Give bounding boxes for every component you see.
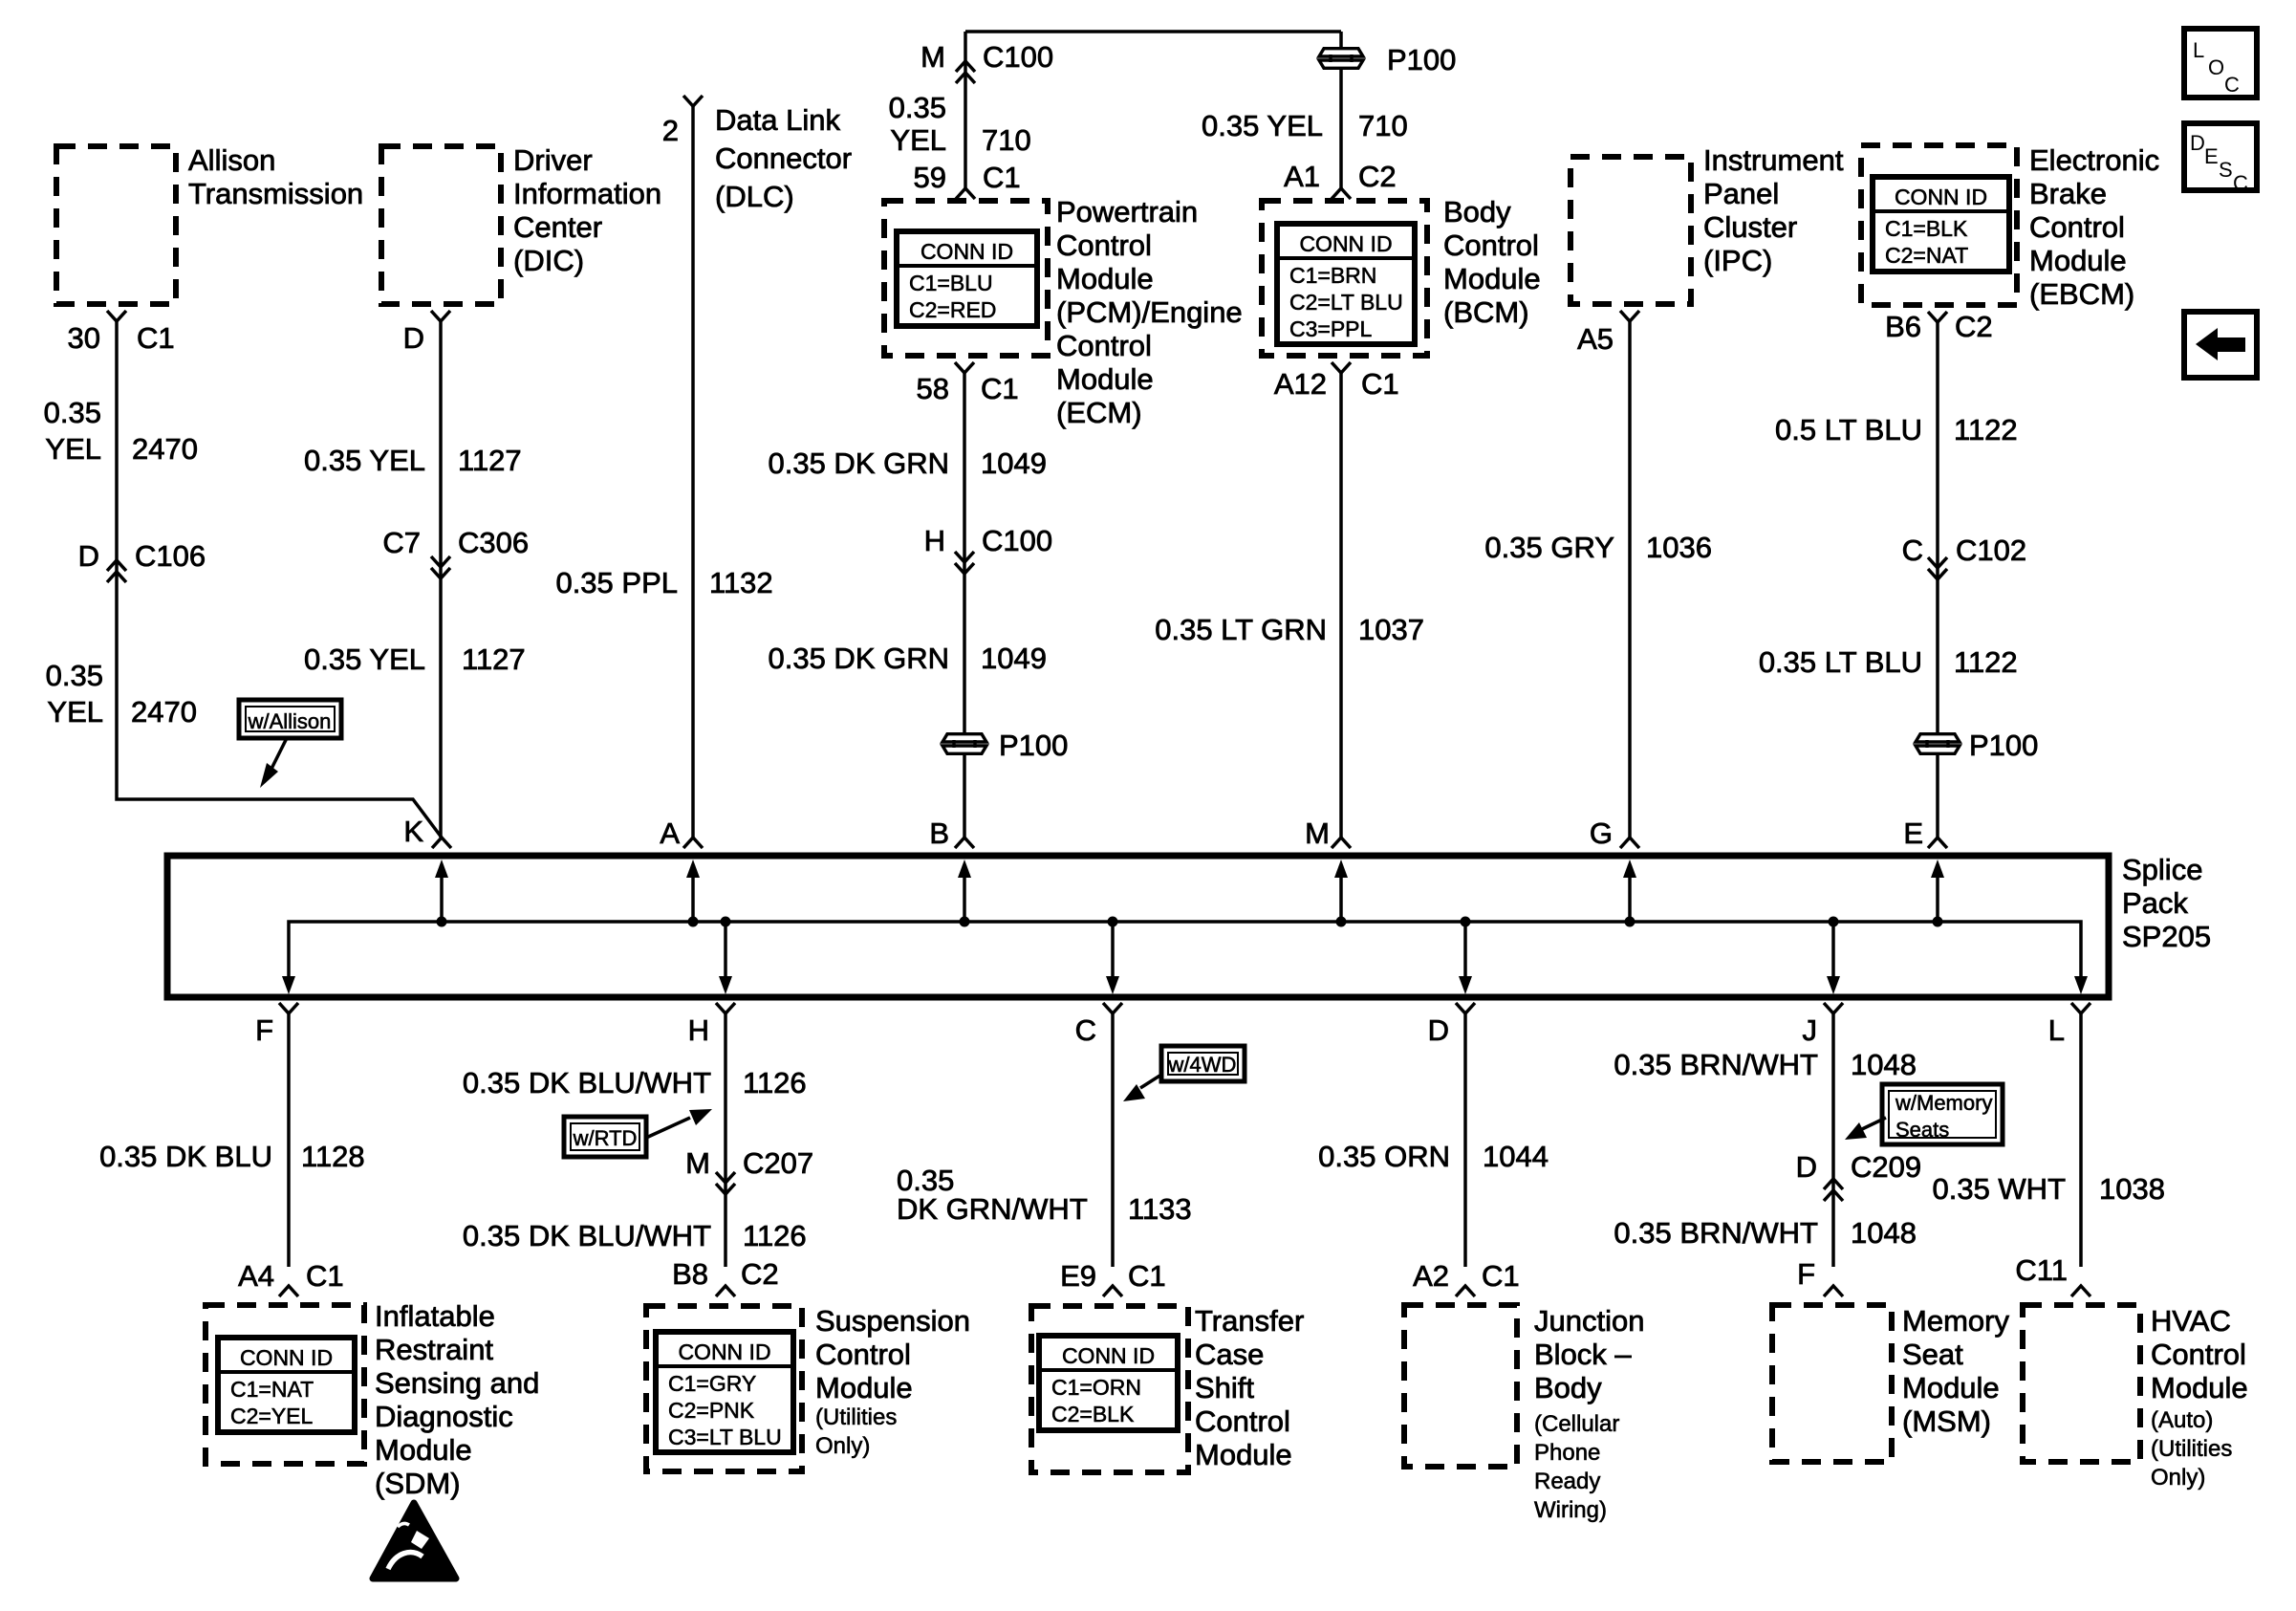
svg-text:Brake: Brake xyxy=(2029,177,2107,210)
svg-text:G: G xyxy=(1590,816,1613,850)
svg-text:Splice: Splice xyxy=(2122,853,2202,886)
connector chevron junction pin A2 xyxy=(1456,1286,1475,1296)
svg-text:C102: C102 xyxy=(1956,533,2026,567)
svg-text:M: M xyxy=(685,1146,710,1180)
svg-text:1044: 1044 xyxy=(1483,1140,1549,1173)
svg-text:C1=GRY: C1=GRY xyxy=(668,1371,756,1396)
label 0.35 LT BLU 1122 (lower) xyxy=(1759,645,2018,679)
svg-text:H: H xyxy=(924,524,945,557)
svg-text:C106: C106 xyxy=(135,539,206,573)
svg-text:C2=YEL: C2=YEL xyxy=(230,1404,314,1428)
module box: BCM xyxy=(1262,201,1427,356)
svg-text:M: M xyxy=(921,40,945,74)
label 0.35 LT GRN 1037 xyxy=(1155,613,1424,646)
svg-text:A5: A5 xyxy=(1577,322,1614,356)
airbag warning triangle xyxy=(373,1503,456,1578)
wire: HVAC 1038 WHT xyxy=(2079,1013,2083,1267)
label 0.35 DK GRN 1049 (upper) xyxy=(768,446,1046,480)
svg-text:Control: Control xyxy=(1056,329,1152,362)
svg-text:710: 710 xyxy=(982,123,1031,157)
svg-text:D: D xyxy=(78,539,99,573)
label Junction Block Body (Cellular Phone Ready Wiring) xyxy=(1534,1304,1644,1523)
svg-text:0.35 LT BLU: 0.35 LT BLU xyxy=(1759,645,1922,679)
svg-text:B: B xyxy=(929,816,949,850)
splice bus wire xyxy=(289,922,2081,976)
svg-text:0.35 WHT: 0.35 WHT xyxy=(1932,1172,2066,1206)
svg-text:C2=BLK: C2=BLK xyxy=(1051,1402,1135,1426)
svg-text:C207: C207 xyxy=(743,1146,813,1180)
splice up arrow G xyxy=(1623,860,1636,927)
svg-text:(PCM)/Engine: (PCM)/Engine xyxy=(1056,295,1243,329)
svg-text:C: C xyxy=(2224,73,2240,97)
svg-text:Shift: Shift xyxy=(1195,1371,1254,1404)
svg-text:O: O xyxy=(2208,55,2224,79)
svg-text:Connector: Connector xyxy=(715,142,852,175)
module box: PCM/ECM xyxy=(884,201,1048,356)
label 0.35 YEL 710 (left) xyxy=(889,91,1031,157)
CONN ID table SDM xyxy=(218,1338,355,1432)
svg-text:YEL: YEL xyxy=(890,123,946,157)
svg-text:0.5 LT BLU: 0.5 LT BLU xyxy=(1775,413,1922,446)
connector chevron HVAC pin C11 xyxy=(2071,1286,2090,1296)
svg-text:Control: Control xyxy=(2029,210,2125,244)
svg-text:H: H xyxy=(688,1013,709,1047)
svg-text:(DIC): (DIC) xyxy=(513,244,584,277)
svg-text:(Utilities: (Utilities xyxy=(815,1404,897,1430)
svg-text:Body: Body xyxy=(1534,1371,1602,1404)
svg-text:C: C xyxy=(2233,171,2248,195)
connector chevron MSM pin F xyxy=(1824,1286,1843,1296)
svg-text:Phone: Phone xyxy=(1534,1440,1600,1466)
connector C106 double chevron xyxy=(107,560,126,571)
callout w/Allison xyxy=(239,700,341,738)
connector chevron splice out D xyxy=(1456,1003,1475,1013)
svg-text:Pack: Pack xyxy=(2122,886,2188,920)
svg-text:C1: C1 xyxy=(981,372,1019,405)
splice down arrow L (right end) xyxy=(2074,976,2088,994)
svg-text:C7: C7 xyxy=(382,526,421,559)
svg-text:CONN ID: CONN ID xyxy=(240,1345,333,1370)
splice up arrow E xyxy=(1931,860,1944,927)
label C7 C306 xyxy=(382,526,529,559)
svg-text:1038: 1038 xyxy=(2099,1172,2165,1206)
svg-text:Only): Only) xyxy=(815,1433,870,1459)
svg-text:Inflatable: Inflatable xyxy=(375,1299,495,1333)
svg-text:Body: Body xyxy=(1443,195,1511,229)
svg-text:1049: 1049 xyxy=(981,446,1047,480)
module box: IPC xyxy=(1570,157,1691,304)
svg-text:w/4WD: w/4WD xyxy=(1168,1053,1237,1077)
DESC reference box xyxy=(2184,123,2257,195)
svg-text:0.35 DK GRN: 0.35 DK GRN xyxy=(768,446,949,480)
label 0.35 YEL 2470 (lower) xyxy=(46,659,197,729)
svg-text:DK GRN/WHT: DK GRN/WHT xyxy=(897,1192,1088,1226)
svg-text:2470: 2470 xyxy=(131,695,197,729)
connector chevron splice G xyxy=(1620,838,1639,848)
callout arrow w/Allison xyxy=(271,738,287,769)
svg-text:A1: A1 xyxy=(1284,160,1320,193)
wire: IPC 1036 GRY xyxy=(1628,321,1632,838)
svg-text:w/RTD: w/RTD xyxy=(573,1126,638,1150)
module box: EBCM xyxy=(1861,145,2017,305)
connector chevron splice B xyxy=(955,838,974,848)
splice up arrow A xyxy=(686,860,700,927)
connector chevron splice K xyxy=(432,838,451,848)
connector chevron suspension pin B8 xyxy=(716,1286,735,1296)
svg-text:C2: C2 xyxy=(741,1257,779,1291)
svg-text:Suspension: Suspension xyxy=(815,1304,970,1338)
svg-text:0.35 PPL: 0.35 PPL xyxy=(555,566,678,599)
svg-text:L: L xyxy=(2048,1013,2065,1047)
wire: PCM 1049 DK GRN xyxy=(963,373,966,838)
connector C100 (H) double chevron xyxy=(955,552,974,562)
svg-text:E9: E9 xyxy=(1060,1259,1096,1293)
svg-text:Case: Case xyxy=(1195,1338,1264,1371)
svg-text:0.35 DK BLU/WHT: 0.35 DK BLU/WHT xyxy=(463,1066,711,1099)
svg-text:S: S xyxy=(2219,158,2233,182)
splice down arrow H xyxy=(719,917,732,995)
label Electronic Brake Control Module (EBCM) xyxy=(2029,143,2159,311)
svg-text:(ECM): (ECM) xyxy=(1056,396,1142,429)
label 0.35 DK GRN 1049 (lower) xyxy=(768,642,1046,675)
module box: Junction Block - Body xyxy=(1404,1305,1517,1467)
back-arrow reference box xyxy=(2184,312,2257,378)
CONN ID table transfer case xyxy=(1039,1336,1178,1430)
label D C209 xyxy=(1796,1150,1922,1184)
wire: PCM 59 to C100 M vertical xyxy=(964,32,967,189)
svg-text:Transmission: Transmission xyxy=(188,177,363,210)
svg-text:E: E xyxy=(2204,144,2219,168)
svg-text:E: E xyxy=(1903,816,1923,850)
svg-text:Ready: Ready xyxy=(1534,1469,1600,1494)
wire: junction block 1044 ORN xyxy=(1463,1013,1467,1267)
svg-text:1128: 1128 xyxy=(301,1140,365,1173)
label Splice Pack SP205 xyxy=(2122,853,2211,953)
svg-text:C2: C2 xyxy=(1955,310,1993,343)
svg-text:A2: A2 xyxy=(1413,1259,1449,1293)
svg-text:CONN ID: CONN ID xyxy=(1299,231,1392,256)
svg-text:C306: C306 xyxy=(458,526,529,559)
label M C207 xyxy=(685,1146,813,1180)
svg-text:1133: 1133 xyxy=(1128,1192,1192,1226)
connector C209 double chevron xyxy=(1824,1179,1843,1189)
svg-text:2: 2 xyxy=(662,114,679,147)
svg-text:59: 59 xyxy=(914,161,946,194)
svg-text:710: 710 xyxy=(1358,109,1408,142)
LOC reference box xyxy=(2184,29,2257,98)
svg-text:1036: 1036 xyxy=(1646,531,1712,564)
svg-text:Only): Only) xyxy=(2151,1465,2205,1491)
svg-text:L: L xyxy=(2193,38,2204,62)
svg-text:Transfer: Transfer xyxy=(1195,1304,1304,1338)
svg-text:P100: P100 xyxy=(1969,729,2038,762)
svg-text:Restraint: Restraint xyxy=(375,1333,493,1366)
svg-text:C: C xyxy=(1075,1013,1096,1047)
connector chevron into BCM pin A1 xyxy=(1332,188,1351,199)
svg-text:0.35: 0.35 xyxy=(889,91,946,124)
wire: BCM A1 branch vertical xyxy=(1339,32,1343,189)
svg-text:C1=BLU: C1=BLU xyxy=(909,271,993,295)
svg-text:1048: 1048 xyxy=(1851,1048,1917,1081)
svg-text:C1: C1 xyxy=(1482,1259,1520,1293)
label B8 C2 xyxy=(672,1257,779,1291)
svg-text:M: M xyxy=(1305,816,1330,850)
svg-text:Sensing and: Sensing and xyxy=(375,1366,539,1400)
callout arrow w/RTD xyxy=(646,1118,690,1138)
svg-text:D: D xyxy=(2190,131,2205,155)
label M C100 xyxy=(921,40,1053,74)
svg-text:C100: C100 xyxy=(982,524,1052,557)
svg-text:Control: Control xyxy=(1056,229,1152,262)
module box: Driver Information Center xyxy=(381,146,501,304)
svg-text:1132: 1132 xyxy=(709,566,773,599)
svg-text:K: K xyxy=(403,815,423,848)
svg-text:0.35 DK GRN: 0.35 DK GRN xyxy=(768,642,949,675)
svg-text:CONN ID: CONN ID xyxy=(921,239,1013,264)
connector chevron transfer pin E9 xyxy=(1103,1286,1122,1296)
label 0.35 YEL 710 (right) xyxy=(1202,109,1408,142)
svg-text:(Auto): (Auto) xyxy=(2151,1407,2213,1433)
svg-text:Diagnostic: Diagnostic xyxy=(375,1400,513,1433)
label A2 C1 xyxy=(1413,1259,1520,1293)
label 0.35 YEL 2470 (upper) xyxy=(44,396,198,466)
connector chevron SDM pin A4 xyxy=(279,1286,298,1296)
label 0.35 YEL 1127 (lower) xyxy=(304,642,526,676)
svg-text:F: F xyxy=(1797,1257,1815,1291)
svg-text:0.35 DK BLU/WHT: 0.35 DK BLU/WHT xyxy=(463,1219,711,1252)
svg-text:C11: C11 xyxy=(2015,1253,2068,1287)
label B6 C2 xyxy=(1885,310,1993,343)
svg-text:Control: Control xyxy=(2151,1338,2246,1371)
svg-text:Module: Module xyxy=(1902,1371,2000,1404)
connector chevron splice M xyxy=(1332,838,1351,848)
svg-text:C2=RED: C2=RED xyxy=(909,297,996,322)
svg-text:D: D xyxy=(1428,1013,1449,1047)
svg-text:w/Allison: w/Allison xyxy=(248,709,332,733)
svg-text:(SDM): (SDM) xyxy=(375,1467,461,1500)
splice down arrow C xyxy=(1106,917,1119,995)
svg-text:1122: 1122 xyxy=(1954,645,2018,679)
label C C102 xyxy=(1902,533,2027,567)
wire: DIC 1127 YEL xyxy=(439,321,443,838)
svg-text:B8: B8 xyxy=(672,1257,708,1291)
label D C106 xyxy=(78,539,206,573)
wire: EBCM 1122 LT BLU xyxy=(1936,322,1939,838)
svg-text:1126: 1126 xyxy=(743,1219,807,1252)
label 0.35 YEL 1127 (upper) xyxy=(304,444,522,477)
wire: SDM 1128 DK BLU xyxy=(287,1013,291,1267)
label 0.5 LT BLU 1122 (upper) xyxy=(1775,413,2018,446)
svg-text:A: A xyxy=(660,816,680,850)
callout w/RTD xyxy=(564,1117,646,1157)
svg-text:D: D xyxy=(1796,1150,1817,1184)
svg-text:Control: Control xyxy=(1195,1404,1290,1438)
CONN ID table EBCM xyxy=(1873,177,2009,272)
svg-text:C1=BLK: C1=BLK xyxy=(1885,216,1968,241)
label 0.35 DK BLU 1128 xyxy=(99,1140,365,1173)
svg-text:C2=LT BLU: C2=LT BLU xyxy=(1289,290,1403,315)
svg-text:0.35 BRN/WHT: 0.35 BRN/WHT xyxy=(1614,1048,1818,1081)
splice up arrow K xyxy=(435,860,448,927)
svg-text:30: 30 xyxy=(68,321,100,355)
svg-text:2470: 2470 xyxy=(132,432,198,466)
label 30 C1 xyxy=(68,321,175,355)
label Instrument Panel Cluster (IPC) xyxy=(1703,143,1844,277)
wire: transfer case 1133 DK GRN/WHT xyxy=(1111,1013,1115,1267)
label 0.35 BRN/WHT 1048 (upper) xyxy=(1614,1048,1917,1081)
svg-text:1127: 1127 xyxy=(458,444,522,477)
svg-text:J: J xyxy=(1803,1013,1818,1047)
svg-text:1037: 1037 xyxy=(1358,613,1424,646)
svg-text:Data Link: Data Link xyxy=(715,103,840,137)
svg-text:w/Memory: w/Memory xyxy=(1895,1091,1992,1115)
svg-text:SP205: SP205 xyxy=(2122,920,2211,953)
splice up arrow M xyxy=(1334,860,1348,927)
wire: top harness horizontal 710 YEL xyxy=(965,30,1341,33)
svg-text:(BCM): (BCM) xyxy=(1443,295,1529,329)
svg-text:Module: Module xyxy=(1443,262,1541,295)
svg-text:Module: Module xyxy=(375,1433,472,1467)
svg-text:Module: Module xyxy=(1056,262,1154,295)
svg-text:Information: Information xyxy=(513,177,661,210)
label Memory Seat Module (MSM) xyxy=(1902,1304,2009,1438)
svg-text:0.35 BRN/WHT: 0.35 BRN/WHT xyxy=(1614,1216,1818,1250)
svg-text:Center: Center xyxy=(513,210,602,244)
svg-text:1048: 1048 xyxy=(1851,1216,1917,1250)
svg-text:C1: C1 xyxy=(1128,1259,1166,1293)
svg-text:Electronic: Electronic xyxy=(2029,143,2159,177)
svg-text:C2=PNK: C2=PNK xyxy=(668,1398,755,1423)
svg-text:C1=ORN: C1=ORN xyxy=(1051,1375,1141,1400)
svg-text:1126: 1126 xyxy=(743,1066,807,1099)
connector chevron EBCM pin B6 xyxy=(1928,312,1947,322)
connector chevron splice out C xyxy=(1103,1003,1122,1013)
connector chevron DIC pin D xyxy=(431,311,450,321)
label 0.35 BRN/WHT 1048 (lower) xyxy=(1614,1216,1917,1250)
label A4 C1 xyxy=(238,1259,344,1293)
svg-text:Control: Control xyxy=(815,1338,911,1371)
svg-text:Memory: Memory xyxy=(1902,1304,2009,1338)
wire: DLC 1132 PPL xyxy=(691,106,695,838)
svg-text:P100: P100 xyxy=(1387,43,1456,76)
label 0.35 GRY 1036 xyxy=(1484,531,1712,564)
svg-text:A4: A4 xyxy=(238,1259,274,1293)
svg-text:(MSM): (MSM) xyxy=(1902,1404,1991,1438)
callout w/4WD xyxy=(1161,1046,1245,1081)
svg-text:(Utilities: (Utilities xyxy=(2151,1436,2232,1462)
connector C306 double chevron xyxy=(431,556,450,567)
CONN ID table suspension xyxy=(656,1332,793,1452)
svg-text:Seats: Seats xyxy=(1895,1118,1949,1142)
module box: Allison Transmission xyxy=(56,146,176,304)
grommet P100 (top) xyxy=(1317,43,1456,76)
connector chevron IPC pin A5 xyxy=(1620,311,1639,321)
svg-text:B6: B6 xyxy=(1885,310,1921,343)
wire: Allison 2470 YEL xyxy=(117,321,442,838)
svg-text:Junction: Junction xyxy=(1534,1304,1644,1338)
module box: Transfer Case Shift Control Module xyxy=(1031,1306,1188,1472)
svg-text:(EBCM): (EBCM) xyxy=(2029,277,2134,311)
connector chevron BCM pin A12 xyxy=(1332,362,1351,373)
svg-text:Module: Module xyxy=(2151,1371,2248,1404)
label Body Control Module (BCM) xyxy=(1443,195,1541,329)
label Transfer Case Shift Control Module xyxy=(1195,1304,1304,1471)
label HVAC Control Module (Auto) (Utilities Only) xyxy=(2151,1304,2248,1491)
svg-text:C2: C2 xyxy=(1358,160,1397,193)
module box: Memory Seat Module xyxy=(1772,1305,1892,1462)
svg-text:C1: C1 xyxy=(1361,367,1399,401)
svg-text:0.35 LT GRN: 0.35 LT GRN xyxy=(1155,613,1327,646)
splice pack SP205 box xyxy=(167,856,2109,997)
svg-text:1127: 1127 xyxy=(462,642,526,676)
svg-text:CONN ID: CONN ID xyxy=(1895,185,1987,209)
svg-text:HVAC: HVAC xyxy=(2151,1304,2231,1338)
label 0.35 DK BLU/WHT 1126 (upper) xyxy=(463,1066,807,1099)
label A12 C1 xyxy=(1274,367,1399,401)
connector chevron splice out H xyxy=(716,1003,735,1013)
label A1 C2 xyxy=(1284,160,1397,193)
grommet P100 (EBCM branch) xyxy=(1914,729,2038,762)
callout arrow w/Memory Seats xyxy=(1862,1118,1886,1129)
splice down arrow D xyxy=(1459,917,1472,995)
label 0.35 WHT 1038 xyxy=(1932,1172,2165,1206)
svg-text:C1=NAT: C1=NAT xyxy=(230,1377,314,1402)
svg-text:C100: C100 xyxy=(983,40,1053,74)
svg-text:1049: 1049 xyxy=(981,642,1047,675)
label Inflatable Restraint Sensing and Diagnostic Module (SDM) xyxy=(375,1299,539,1500)
connector chevron DLC pin 2 xyxy=(683,96,703,106)
svg-text:C209: C209 xyxy=(1851,1150,1921,1184)
connector chevron Allison pin 30 xyxy=(107,311,126,321)
label 0.35 ORN 1044 xyxy=(1318,1140,1549,1173)
connector chevron splice E xyxy=(1928,838,1947,848)
svg-text:CONN ID: CONN ID xyxy=(678,1339,770,1364)
svg-text:Control: Control xyxy=(1443,229,1539,262)
svg-text:0.35 DK BLU: 0.35 DK BLU xyxy=(99,1140,272,1173)
svg-text:Module: Module xyxy=(1056,362,1154,396)
svg-text:Instrument: Instrument xyxy=(1703,143,1844,177)
svg-text:YEL: YEL xyxy=(45,432,101,466)
svg-text:A12: A12 xyxy=(1274,367,1327,401)
connector chevron splice out L xyxy=(2071,1003,2090,1013)
label H C100 xyxy=(924,524,1053,557)
svg-text:0.35 YEL: 0.35 YEL xyxy=(304,444,425,477)
connector chevron splice out J xyxy=(1824,1003,1843,1013)
label 0.35 PPL 1132 xyxy=(555,566,772,599)
svg-text:1122: 1122 xyxy=(1954,413,2018,446)
connector chevron splice A xyxy=(683,838,703,848)
wire: BCM 1037 LT GRN xyxy=(1339,373,1343,838)
module box: HVAC Control Module xyxy=(2023,1305,2140,1462)
svg-text:C1: C1 xyxy=(306,1259,344,1293)
svg-text:0.35 YEL: 0.35 YEL xyxy=(304,642,425,676)
label Powertrain Control Module (PCM)/Engine Control Module (ECM) xyxy=(1056,195,1243,429)
label E9 C1 xyxy=(1060,1259,1166,1293)
wire: suspension 1126 DK BLU/WHT xyxy=(724,1013,727,1267)
svg-text:CONN ID: CONN ID xyxy=(1062,1343,1155,1368)
svg-text:C1: C1 xyxy=(983,161,1021,194)
label 59 C1 xyxy=(914,161,1021,194)
svg-text:YEL: YEL xyxy=(47,695,103,729)
svg-text:Panel: Panel xyxy=(1703,177,1779,210)
svg-text:C: C xyxy=(1902,533,1923,567)
svg-text:(Cellular: (Cellular xyxy=(1534,1411,1619,1437)
svg-text:0.35 YEL: 0.35 YEL xyxy=(1202,109,1323,142)
svg-text:Module: Module xyxy=(2029,244,2127,277)
connector C207 double chevron xyxy=(716,1172,735,1183)
svg-text:Module: Module xyxy=(815,1371,913,1404)
svg-text:D: D xyxy=(403,321,424,355)
